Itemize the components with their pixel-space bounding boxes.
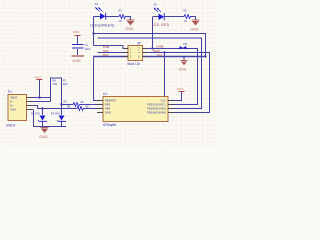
svg-text:P1: P1 — [8, 90, 12, 94]
svg-text:D1: D1 — [95, 2, 99, 6]
wire LED1 anode vertical — [93, 17, 95, 46]
svg-text:R7: R7 — [63, 79, 67, 83]
svg-text:GND: GND — [73, 59, 82, 63]
ground after R2 — [191, 20, 200, 32]
power VCC right — [177, 87, 185, 92]
svg-text:GND: GND — [40, 135, 49, 139]
power VCC capacitor — [73, 30, 81, 35]
zener D3 — [31, 112, 47, 123]
junction dots — [38, 32, 206, 109]
svg-text:PB1/MISO/AIN1: PB1/MISO/AIN1 — [147, 107, 166, 111]
svg-text:D-: D- — [10, 100, 13, 104]
svg-text:R1: R1 — [119, 9, 123, 13]
svg-text:PB2/SCK/ADC1: PB2/SCK/ADC1 — [147, 103, 166, 107]
wire V3 reset to IC pin1 — [94, 57, 99, 101]
power VCC usb — [35, 75, 43, 79]
svg-text:GND: GND — [191, 28, 200, 32]
svg-text:VBUS: VBUS — [10, 96, 18, 100]
svg-text:SCK: SCK — [103, 49, 109, 53]
svg-text:R6: R6 — [53, 79, 57, 83]
wire H1 top bus to IC pin PB0 — [94, 34, 206, 57]
wire LED1 row — [94, 17, 131, 21]
svg-text:PGM: PGM — [103, 45, 110, 49]
wire VCC drop to VBUS — [39, 80, 41, 98]
svg-text:LED(GREEN): LED(GREEN) — [90, 23, 115, 27]
LED D1 — [95, 2, 106, 20]
wire zener D3 tap — [42, 109, 44, 116]
svg-text:RST: RST — [103, 53, 109, 57]
svg-text:1K5: 1K5 — [53, 82, 58, 86]
svg-text:D5: D5 — [184, 42, 188, 46]
svg-text:JP: JP — [137, 41, 141, 45]
wire GND tap mid — [183, 57, 185, 61]
diode D5 small — [180, 42, 188, 50]
svg-text:U1: U1 — [103, 92, 107, 96]
svg-text:VCC: VCC — [73, 30, 81, 34]
wire H3 to header pin1 — [94, 46, 125, 49]
svg-text:GND: GND — [10, 108, 16, 112]
svg-text:VCC: VCC — [35, 75, 43, 79]
svg-text:10uF: 10uF — [85, 47, 91, 51]
svg-text:MISO: MISO — [153, 49, 160, 53]
wire LED2 row — [153, 17, 196, 21]
svg-text:D2: D2 — [154, 3, 158, 7]
wire H4 to header pin3 — [98, 52, 125, 54]
svg-text:D+: D+ — [10, 104, 14, 108]
IC U1 ATtiny85 — [97, 92, 174, 127]
svg-text:D4 3V6: D4 3V6 — [51, 112, 60, 116]
wire V4 LED2 leg — [152, 17, 154, 49]
wire H5 thick reset bus — [94, 56, 206, 58]
header JP1 — [124, 41, 148, 66]
resistor R1 — [118, 15, 127, 19]
svg-text:22R: 22R — [63, 82, 68, 86]
svg-text:VCC: VCC — [161, 99, 167, 103]
wire USB D- up-and-over — [33, 78, 62, 105]
resistor R4 — [76, 107, 85, 111]
wire D- row to IC — [62, 104, 99, 106]
ground bottom — [40, 128, 49, 139]
ground mid right — [179, 61, 188, 72]
svg-text:GND: GND — [105, 111, 111, 115]
wire H7 header pin4 net to IC — [147, 53, 210, 113]
svg-text:VCC: VCC — [177, 87, 185, 91]
wire H6 header pin2 net to IC — [147, 49, 198, 105]
svg-text:PB0/MOSI/AIN0: PB0/MOSI/AIN0 — [147, 111, 166, 115]
svg-text:ATtiny85: ATtiny85 — [103, 123, 116, 127]
svg-text:VCC: VCC — [157, 53, 163, 57]
svg-text:1K: 1K — [119, 19, 122, 23]
wire H2 second bus — [98, 38, 202, 109]
svg-text:VUSB: VUSB — [156, 45, 164, 49]
ground after R1 — [126, 20, 135, 31]
wire capacitor top — [77, 36, 79, 44]
svg-text:GND: GND — [126, 27, 135, 31]
svg-text:USB A: USB A — [6, 124, 16, 128]
svg-text:GND: GND — [179, 67, 188, 71]
wire USB VBUS row — [33, 97, 51, 99]
svg-text:1K: 1K — [184, 19, 187, 23]
capacitor C1 — [72, 43, 91, 51]
svg-text:C1: C1 — [85, 43, 89, 47]
svg-text:D3 3V6: D3 3V6 — [31, 112, 40, 116]
connector P1 USB — [6, 90, 33, 128]
wire VCC to IC right pin — [174, 92, 182, 101]
wire V5 into IC top — [164, 53, 166, 97]
ground bar capacitor — [72, 56, 85, 63]
zener D4 — [51, 112, 66, 123]
svg-text:R2: R2 — [184, 9, 188, 13]
LED D2 — [154, 3, 165, 21]
resistor R3 — [72, 103, 81, 107]
wire capacitor bottom — [77, 49, 79, 55]
svg-text:R4: R4 — [67, 104, 71, 108]
svg-text:R3: R3 — [64, 100, 68, 104]
wire USB D+ row to IC — [33, 106, 98, 109]
resistor R2 — [183, 15, 192, 19]
wire zener D4 tap — [61, 105, 63, 116]
wire ground bus bottom — [34, 110, 67, 128]
svg-text:Boot LDr: Boot LDr — [128, 62, 142, 66]
svg-text:LED RED: LED RED — [152, 23, 170, 27]
